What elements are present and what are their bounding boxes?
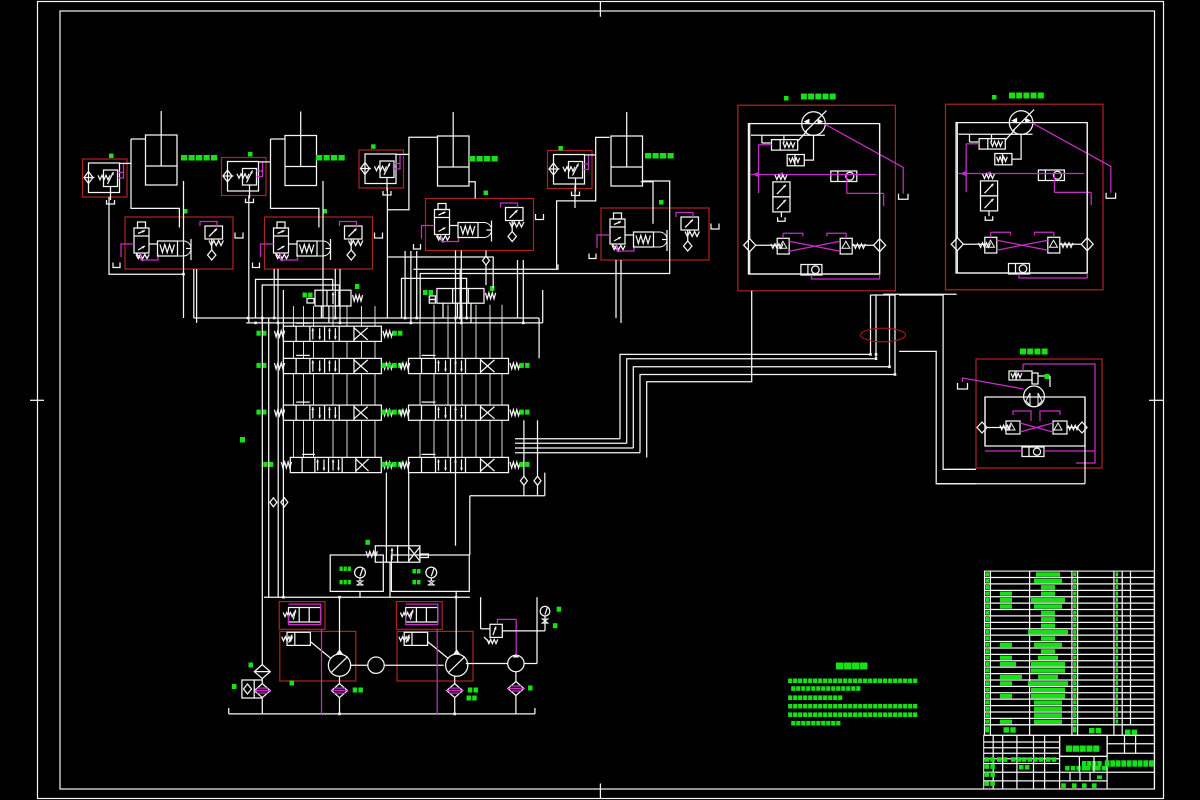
wire tank return left bus [261, 318, 263, 658]
pilot gauge box CH [391, 555, 469, 591]
travel line bundle 4 [640, 294, 895, 453]
title right grid [1106, 735, 1108, 789]
right travel motor block [946, 104, 1104, 290]
stick cylinder [611, 136, 643, 186]
travel line bundle 2 [627, 295, 876, 443]
label valve 6 [365, 540, 370, 545]
parts table header row [985, 725, 1155, 736]
boom cylinder label [469, 156, 475, 162]
label node K [240, 437, 245, 443]
parts list rows [985, 577, 1155, 579]
wire relief to gauge [502, 630, 545, 632]
bottom border centering tick [599, 784, 601, 799]
left travel motor block [738, 105, 896, 291]
manifold to bundle rail 4 [515, 452, 640, 454]
pump section top rail [264, 596, 470, 598]
label arm control valve group LF2 [323, 209, 328, 214]
technical note line 2 [791, 686, 795, 691]
label pump P2 group [467, 696, 472, 701]
title grid minor [1060, 755, 1108, 757]
boom control valve group LF3 [426, 199, 534, 251]
label arm port relief-check valve LA2 [248, 152, 253, 157]
label bucket control valve group LF1 [183, 209, 188, 214]
right border centering tick [1149, 399, 1164, 401]
label stick control valve group LF4 [659, 200, 664, 205]
tank symbol right of boom control valve group LF3 [536, 214, 544, 220]
boom port relief-check valve LA3 [359, 150, 404, 188]
wire pump P2 up [455, 591, 457, 655]
wire relief drop [480, 597, 482, 629]
bundle junctions [869, 353, 872, 356]
manifold port riser L3 [313, 306, 315, 326]
technical note line 4 [788, 704, 792, 709]
label right right travel spool valve 11DL [520, 410, 524, 415]
variable pump P2 group [396, 602, 442, 630]
manifold port riser L4 [332, 306, 334, 326]
title block frame [984, 735, 1155, 789]
top border centering tick [599, 2, 601, 17]
label left service spool valve 12DL [382, 462, 386, 467]
wire assembly D to cylinder 4 link [585, 154, 596, 156]
drain check diamonds [520, 476, 527, 485]
suction strainer [254, 665, 270, 679]
wire group2 left drops [248, 209, 250, 323]
bucket control valve group LF1 [125, 217, 233, 269]
wire group3 down mid2 [460, 251, 462, 323]
tank symbol right of arm control valve group LF2 [375, 233, 383, 239]
travel line bundle 5 [647, 291, 752, 458]
wire assembly B drop [248, 196, 250, 210]
label left travel motor [801, 94, 807, 100]
scale value [1097, 775, 1102, 779]
label filter M1 [468, 688, 473, 693]
swing motor block [976, 359, 1102, 468]
wire loop mid [402, 278, 467, 318]
wire hook line [413, 264, 558, 269]
drawing name text [1066, 746, 1072, 752]
manifold port riser R3 [447, 305, 449, 359]
technical note line 3 [788, 695, 792, 700]
wire group3 relief drop [517, 260, 519, 318]
arm control valve group LF2 [265, 217, 373, 269]
bucket port relief-check valve LA1 [83, 159, 128, 197]
wire group2 relief drop [334, 269, 336, 318]
wire cylinder 2 rod side step [271, 139, 319, 228]
label filter M2 [353, 688, 358, 693]
wire group3 diamond [483, 256, 490, 265]
tank line [229, 713, 535, 715]
wire cylinder 2 bottom port drop [322, 181, 324, 318]
pilot supply valve 6 [375, 546, 420, 562]
label right boom spool valve 8DL [392, 363, 396, 368]
wire valve6 drop [389, 562, 391, 597]
wire cylinder 3 rod side step [387, 137, 437, 209]
wire group2 mid drops [273, 269, 275, 318]
manifold port riser R5 [475, 305, 477, 359]
valve XM drops [320, 306, 322, 318]
wire cylinder 3 bottom port drop [468, 182, 475, 199]
pump2 to pump3 shaft [466, 663, 508, 665]
travel line bundle 3 [633, 294, 889, 448]
label boom control valve group LF3 [484, 191, 489, 196]
pilot gauge box LH2 [330, 555, 383, 591]
boom cylinder [438, 136, 470, 186]
service spool valve 12DL [409, 457, 509, 472]
tank symbol right of bucket control valve group LF1 [235, 233, 243, 239]
manifold port riser L1 [292, 306, 294, 326]
label right left travel spool valve 10DL [520, 363, 524, 368]
manifold feed bus B [246, 322, 543, 324]
magenta drain pump P2 [436, 629, 438, 714]
left travel spool valve 10DL [409, 358, 509, 373]
manifold port riser L6 [361, 306, 363, 326]
gear pump P3 [508, 655, 524, 671]
title row labels [985, 757, 990, 762]
title design row [985, 764, 990, 769]
label bucket port relief-check valve LA1 [109, 154, 114, 159]
wire pump P2 pressure line [277, 323, 279, 597]
drain collector [470, 495, 545, 497]
swing supply line 2 [899, 351, 976, 483]
wire group4 down [620, 260, 622, 323]
junction highlight ellipse [861, 328, 906, 342]
label left swing spool valve 2DL [263, 462, 267, 467]
label gauge G1 [557, 607, 562, 612]
label left left travel spool valve 10DL [382, 363, 386, 368]
wire assembly C drop [386, 188, 388, 318]
label left bucket spool valve 7DL [256, 331, 260, 336]
travel line bundle 1 [620, 295, 871, 439]
stick cylinder label [645, 153, 651, 159]
swing block bottom lines [936, 483, 1085, 485]
wire group3 left drops [404, 251, 406, 318]
tank symbol right of stick control valve group LF4 [711, 224, 719, 230]
label right swing spool valve 2DL [392, 462, 396, 467]
wire cylinder4 long loop [420, 181, 670, 318]
label left stick spool valve 9DL [256, 410, 260, 415]
label stick port relief-check valve LA4 [558, 146, 563, 151]
drain diamonds left col [270, 498, 277, 507]
title bottom rows [985, 772, 990, 777]
filter under pump P2 [447, 684, 463, 698]
variable pump P1 group [279, 602, 325, 630]
arm cylinder [285, 136, 317, 186]
label right stick spool valve 9DL [392, 410, 396, 415]
arm cylinder label [316, 155, 322, 161]
tank symbol left of arm control valve group LF2 [253, 263, 260, 268]
stick spool valve 9DL [283, 405, 381, 420]
label pump P1 group [290, 681, 295, 686]
bucket cylinder [146, 135, 178, 185]
bypass check box [242, 680, 254, 698]
manifold port riser R7 [501, 305, 503, 359]
label right service spool valve 12DL [520, 462, 524, 467]
label swing motor [1020, 349, 1026, 355]
label CH [412, 569, 416, 574]
wire pump P1 up [339, 597, 341, 654]
manifold port riser R2 [433, 305, 435, 359]
parts header labels [985, 727, 989, 733]
wire group1 relief drop [193, 269, 195, 318]
valve6 riser A [385, 473, 387, 546]
left border centering tick [30, 399, 44, 401]
right travel spool valve 11DL [409, 405, 509, 420]
wire diamond feed [388, 257, 493, 289]
wire cylinder 1 bottom port drop [183, 181, 185, 318]
tank symbol left of boom control valve group LF3 [414, 244, 421, 249]
technical note line 1 [788, 679, 792, 684]
filter under pump P1 [332, 684, 348, 698]
wire group4 right drop [538, 318, 540, 358]
label left right travel spool valve 11DL [382, 410, 386, 415]
label pilot proportional valve LS [423, 290, 427, 295]
manifold port riser R4 [461, 305, 463, 359]
project title text [1105, 760, 1110, 766]
pilot shutoff valve XM [315, 290, 351, 306]
wire assembly D drop [574, 186, 576, 209]
manifold feed bus A [194, 317, 539, 319]
wire pump P1 pressure line [268, 318, 270, 597]
wire assembly A to cylinder 1 link [120, 162, 132, 164]
label pilot shutoff valve XM [303, 293, 307, 298]
wire manifold left edge line [282, 290, 284, 597]
manifold port riser L7 [374, 306, 376, 326]
technical note line 6 [791, 721, 795, 726]
boom spool valve 8DL [283, 358, 381, 373]
bucket spool valve 7DL [283, 326, 381, 341]
label boom port relief-check valve LA3 [371, 144, 376, 149]
manifold port riser R6 [489, 305, 491, 359]
drawing name box [1060, 735, 1108, 756]
filter under pump P3 [508, 682, 524, 696]
tank symbol left of stick control valve group LF4 [589, 254, 596, 259]
wire box LH2 down [359, 591, 361, 597]
title block signature rows [984, 741, 1060, 743]
stick control valve group LF4 [601, 208, 709, 260]
wire assembly B to cylinder 2 link [259, 161, 271, 163]
label left boom spool valve 8DL [256, 363, 260, 368]
label right bucket spool valve 7DL [392, 331, 396, 336]
wire group3 down mid [455, 251, 457, 546]
cylinder group collector wire [109, 197, 184, 275]
swing supply line 1 [899, 295, 976, 469]
tank symbol left of bucket control valve group LF1 [113, 263, 120, 268]
valve6 riser B [408, 473, 410, 546]
gauge LH2 [355, 567, 366, 578]
label LH2 [340, 567, 343, 572]
arm port relief-check valve LA2 [222, 158, 267, 196]
manifold to bundle rail 1 [515, 438, 620, 440]
manifold to bundle rail 3 [515, 447, 633, 449]
manifold port riser R1 [419, 305, 421, 359]
manifold port riser L5 [346, 306, 348, 326]
engine link circle [368, 657, 384, 673]
parts list table frame [985, 571, 1155, 725]
label suction strainer [249, 663, 254, 668]
stage mark labels [1065, 766, 1069, 771]
relief magenta pilot [497, 619, 516, 655]
pilot proportional valve LS [437, 289, 484, 304]
wire cylinder 4 bottom port drop [641, 182, 653, 224]
gauge CH [426, 567, 437, 578]
motor link top [883, 293, 956, 295]
technical note line 5 [788, 712, 792, 717]
technical requirements title [836, 663, 844, 670]
bucket cylinder label [181, 155, 187, 161]
pressure gauge G1 [540, 606, 550, 616]
parts list columns [989, 571, 991, 725]
swing spool valve 2DL [290, 457, 381, 472]
manifold to bundle rail 2 [515, 442, 627, 444]
manifold port riser L2 [303, 306, 305, 326]
parts list entries [985, 572, 989, 576]
wire cylinder 4 rod side step [557, 137, 610, 269]
wire cylinder 1 rod side step [131, 139, 179, 228]
label filter P3 [528, 686, 533, 691]
title block signature columns [992, 735, 994, 789]
wire assembly C to cylinder 3 link [396, 153, 409, 155]
label right travel motor [1009, 93, 1015, 99]
magenta drain pump P1 [321, 629, 323, 714]
valve LS drops [442, 303, 444, 318]
stick port relief-check valve LA4 [548, 151, 593, 189]
system relief valve [490, 624, 502, 637]
